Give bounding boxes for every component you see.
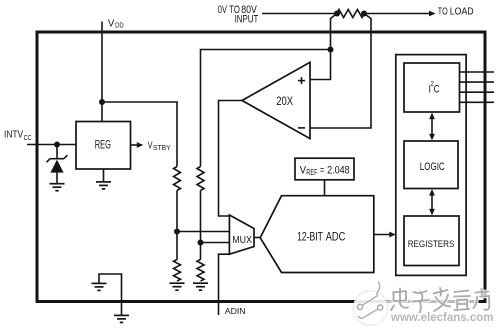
IC outer boundary box — [37, 32, 485, 302]
resistor divider 1 top resistor — [174, 167, 181, 191]
resistor divider 1 bottom resistor — [174, 260, 181, 282]
wire REG output arrow — [131, 144, 138, 146]
svg-text:0V: 0V — [218, 2, 228, 15]
svg-text:V: V — [148, 139, 153, 151]
bus lines I2C pins — [460, 72, 495, 102]
node VSTBY output label — [148, 139, 153, 151]
wire LOGIC to REGISTERS double arrow — [429, 189, 435, 215]
resistor divider 2 top resistor — [197, 167, 204, 191]
wire VREF to ADC — [324, 180, 326, 196]
node TO LOAD label — [438, 5, 448, 17]
ground below REG — [96, 182, 111, 189]
junction divider 2 tap — [198, 240, 204, 246]
svg-text:ADIN: ADIN — [225, 306, 246, 316]
svg-text:V: V — [300, 165, 306, 177]
svg-text:C: C — [434, 83, 440, 95]
digital section boundary — [396, 55, 466, 276]
svg-text:CC: CC — [24, 135, 32, 143]
adc 12-BIT ADC block — [260, 196, 374, 273]
i2c block I2C — [404, 63, 460, 112]
svg-text:=: = — [320, 164, 325, 177]
svg-text:REGISTERS: REGISTERS — [408, 238, 455, 249]
wire ADC output arrow to digital section — [374, 234, 390, 236]
shunt sense resistor — [337, 10, 364, 18]
vref reference box VREF = 2.048 — [295, 158, 354, 180]
node VDD pin label — [108, 18, 115, 30]
wire INTVCC node to zener cathode — [56, 145, 58, 160]
svg-text:ADC: ADC — [326, 230, 346, 243]
svg-text:INTV: INTV — [4, 129, 24, 140]
wire REG to ground — [103, 169, 105, 182]
logic block LOGIC — [404, 141, 458, 189]
ground below divider 2 — [193, 283, 208, 290]
svg-text:INPUT: INPUT — [235, 13, 259, 26]
wire sense+ down to op-amp — [310, 14, 337, 80]
ground internal analog — [92, 274, 122, 315]
wire VDD node to divider 1 top — [102, 102, 177, 167]
svg-text:MUX: MUX — [232, 235, 252, 247]
ground below zener — [50, 184, 65, 191]
mux MUX — [229, 215, 254, 254]
svg-text:12-BIT: 12-BIT — [297, 231, 323, 244]
junction VDD node — [99, 99, 105, 105]
wire ADIN pin to MUX input 4 — [219, 254, 230, 315]
wire op-amp output to MUX input 1 — [219, 101, 243, 217]
ground external pin — [114, 315, 129, 322]
wire divider 1 tap to MUX input 2 — [177, 231, 229, 233]
svg-text:REF: REF — [306, 169, 317, 177]
ground below divider 1 — [170, 283, 185, 290]
wire sense- down to op-amp — [310, 14, 371, 129]
node INTVCC pin label — [4, 129, 24, 140]
wire INTVCC pin into REG — [27, 144, 77, 146]
junction divider 1 tap — [174, 229, 180, 235]
wire VDD pin vertical into REG — [101, 22, 103, 122]
op-amp 20X — [242, 62, 310, 138]
resistor divider 2 bottom resistor — [197, 260, 204, 282]
junction shunt left — [334, 11, 340, 17]
junction INTVCC node — [54, 142, 60, 148]
junction sense+ node — [328, 47, 334, 53]
svg-text:www.elecfans.com: www.elecfans.com — [390, 312, 493, 324]
wire divider 2 mid — [200, 191, 202, 260]
regulator block REG — [76, 122, 131, 170]
svg-text:TO: TO — [438, 5, 448, 17]
svg-text:2.048: 2.048 — [327, 165, 350, 177]
svg-text:V: V — [108, 18, 115, 30]
wire divider 2 tap to MUX input 3 — [201, 242, 230, 244]
wire MUX output to ADC — [254, 237, 260, 239]
wire I2C to LOGIC double arrow — [429, 113, 435, 141]
wire shunt to load arrow — [364, 13, 430, 15]
wire divider 1 mid — [176, 191, 178, 260]
registers block REGISTERS — [404, 216, 459, 266]
watermark chinese characters — [391, 288, 489, 318]
junction shunt right — [361, 11, 367, 17]
node 0V TO 80V INPUT label — [218, 2, 228, 15]
svg-text:20X: 20X — [276, 95, 293, 108]
watermark logo circle — [353, 281, 387, 325]
svg-text:STBY: STBY — [153, 144, 171, 152]
wire input rail to shunt resistor — [262, 13, 337, 15]
svg-text:REG: REG — [95, 139, 111, 152]
wire sense line to divider 2 top — [201, 50, 331, 167]
svg-text:LOGIC: LOGIC — [420, 161, 445, 174]
svg-text:LOAD: LOAD — [450, 6, 474, 18]
zener diode shunt on INTVCC — [47, 155, 68, 183]
watermark halo band — [387, 289, 476, 311]
svg-text:DD: DD — [115, 22, 124, 30]
